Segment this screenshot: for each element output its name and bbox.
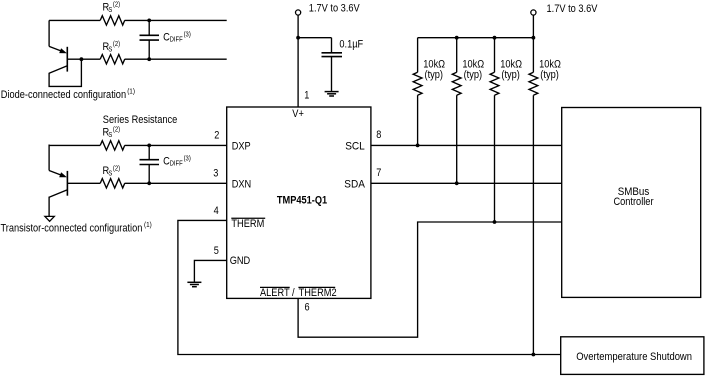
svg-text:5: 5 xyxy=(214,245,219,257)
svg-text:(1): (1) xyxy=(127,88,135,95)
svg-text:(2): (2) xyxy=(113,2,120,9)
svg-text:3: 3 xyxy=(213,167,218,179)
svg-text:(2): (2) xyxy=(113,127,120,134)
svg-text:4: 4 xyxy=(214,205,219,217)
svg-text:0.1µF: 0.1µF xyxy=(339,39,363,51)
svg-text:/: / xyxy=(292,287,295,299)
svg-text:GND: GND xyxy=(230,255,251,267)
svg-text:TMP451-Q1: TMP451-Q1 xyxy=(277,195,327,207)
svg-text:V+: V+ xyxy=(292,108,304,120)
svg-text:7: 7 xyxy=(376,167,381,179)
svg-text:Overtemperature Shutdown: Overtemperature Shutdown xyxy=(576,351,692,363)
svg-text:SCL: SCL xyxy=(345,141,365,153)
svg-text:Series Resistance: Series Resistance xyxy=(103,114,178,126)
svg-text:8: 8 xyxy=(376,129,381,141)
svg-text:Controller: Controller xyxy=(613,196,653,208)
svg-text:(1): (1) xyxy=(144,222,152,229)
svg-text:1: 1 xyxy=(304,90,309,102)
svg-text:DXN: DXN xyxy=(232,179,252,191)
svg-text:1.7V to 3.6V: 1.7V to 3.6V xyxy=(547,3,599,15)
svg-text:(typ): (typ) xyxy=(501,69,520,81)
svg-text:(typ): (typ) xyxy=(425,69,444,81)
svg-text:DXP: DXP xyxy=(232,141,251,153)
svg-text:2: 2 xyxy=(214,130,219,142)
svg-text:(2): (2) xyxy=(113,165,120,172)
svg-text:DIFF: DIFF xyxy=(170,161,183,168)
svg-text:(2): (2) xyxy=(113,41,120,48)
svg-text:Diode-connected configuration: Diode-connected configuration xyxy=(1,89,126,101)
svg-text:ALERT: ALERT xyxy=(260,287,290,299)
svg-text:THERM2: THERM2 xyxy=(299,287,337,299)
svg-text:Transistor-connected configura: Transistor-connected configuration xyxy=(1,223,143,235)
svg-text:SDA: SDA xyxy=(344,179,365,191)
svg-text:6: 6 xyxy=(305,301,310,313)
svg-text:(typ): (typ) xyxy=(464,69,483,81)
svg-text:DIFF: DIFF xyxy=(170,37,183,44)
svg-text:(typ): (typ) xyxy=(540,69,559,81)
svg-text:THERM: THERM xyxy=(231,218,264,230)
svg-text:1.7V to 3.6V: 1.7V to 3.6V xyxy=(309,3,361,15)
svg-text:(3): (3) xyxy=(184,32,191,39)
svg-text:(3): (3) xyxy=(184,156,191,163)
